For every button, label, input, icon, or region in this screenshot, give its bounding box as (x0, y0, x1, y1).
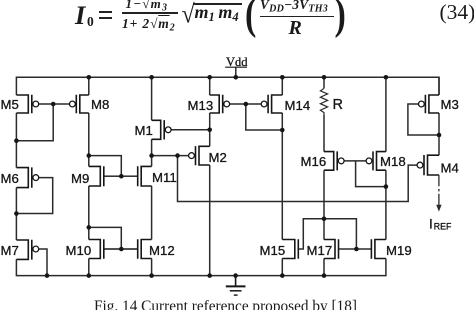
wire M5 diode gate return (16, 104, 69, 141)
transistor M4 (424, 154, 439, 175)
wire node B long horizontal (178, 156, 418, 202)
transistor M15 (282, 239, 298, 260)
current arrow IREF dashed (438, 175, 440, 205)
junction M18 source / Vdd rail (384, 75, 389, 80)
junction M9 source / M10 drain (87, 225, 92, 230)
junction M13-M14 gate node (244, 102, 249, 107)
junction M17-M19 gate node (354, 247, 359, 252)
transistor M7 (16, 239, 31, 260)
svg-text:M5: M5 (1, 97, 19, 112)
wire M10 gate branch (89, 227, 122, 249)
wire M13 column (209, 77, 211, 275)
wire M15 gate branch (298, 219, 356, 249)
svg-text:M6: M6 (1, 171, 19, 186)
transistor M12 (138, 239, 152, 260)
eq big right paren (335, 0, 346, 40)
wire M13 M14 gate (230, 104, 283, 130)
svg-text:M19: M19 (386, 243, 412, 258)
wire M8 drain column (88, 77, 90, 275)
svg-text:M13: M13 (188, 98, 214, 113)
svg-text:I: I (429, 217, 433, 232)
resistor R (320, 88, 327, 115)
caption Fig.14 (94, 298, 357, 310)
svg-text:M1: M1 (135, 123, 153, 138)
Vdd underline (225, 66, 247, 68)
transistor M17 (324, 239, 339, 260)
transistor M11 (138, 166, 152, 187)
junction M10 source / ground rail (87, 273, 92, 278)
transistor M3 (425, 94, 439, 114)
transistor M19 (371, 239, 386, 260)
wire M3 diode gate return (408, 104, 439, 135)
equation I0 formula (75, 0, 85, 31)
wire M14 column (281, 77, 283, 275)
transistor M16 (324, 151, 337, 171)
wire M7 gate to rail (39, 249, 47, 276)
wire M1 column (151, 77, 153, 275)
svg-text:M14: M14 (285, 98, 311, 113)
svg-text:M2: M2 (209, 150, 227, 165)
eq fraction 2 denominator (289, 17, 302, 40)
svg-text:M18: M18 (380, 154, 406, 169)
junction M5-M8 gate node (51, 102, 56, 107)
eq fraction 2 bar (260, 16, 335, 17)
eq fraction 1 denominator (122, 16, 175, 34)
wire M9 gate branch (89, 156, 122, 177)
junction M1 source / Vdd rail (149, 75, 154, 80)
junction R top / Vdd rail (322, 75, 327, 80)
junction M5 drain / gate return (14, 138, 19, 143)
svg-text:M10: M10 (66, 243, 92, 258)
transistor M1 (152, 120, 165, 141)
junction M1 drain / M11 drain (149, 153, 154, 158)
junction M8 drain / M9 drain (87, 153, 92, 158)
svg-text:M8: M8 (91, 97, 109, 112)
wire M3 column (438, 77, 440, 155)
wire M18 column (385, 77, 387, 239)
svg-text:M15: M15 (260, 243, 286, 258)
svg-text:M7: M7 (1, 243, 19, 258)
junction Vdd stub / rail (234, 75, 239, 80)
wire M16 M18 gate (344, 161, 386, 187)
svg-text:M11: M11 (152, 170, 177, 185)
junction node to M4 gate wire (175, 153, 180, 158)
junction M12 source / ground rail (149, 273, 154, 278)
transistor M10 (89, 239, 104, 260)
svg-text:M12: M12 (149, 243, 175, 258)
wire M6 diode gate return (16, 178, 52, 214)
eq sqrt m1m4 (182, 1, 195, 30)
eq big left paren (245, 0, 256, 40)
eq number (34) (440, 0, 474, 25)
junction ground rail / ground symbol (233, 273, 238, 278)
eq fraction 1 numerator (126, 0, 169, 13)
ground rail (16, 259, 386, 276)
junction R-M16 line / M15-M17 branch (322, 217, 327, 222)
wire M1 gate to M13 drain (171, 129, 210, 131)
transistor M6 (16, 167, 31, 189)
eq fraction 1 bar (122, 12, 178, 13)
svg-text:M9: M9 (71, 171, 89, 186)
junction M9-M11 gate node (119, 174, 124, 179)
Vdd rail (16, 77, 439, 95)
junction M18 drain / gate return (384, 184, 389, 189)
junction M14 drain node (280, 128, 285, 133)
junction M10-M12 gate node (119, 247, 124, 252)
transistor M18 (373, 151, 386, 171)
wire M5 column (15, 113, 17, 240)
transistor M14 (268, 94, 282, 114)
svg-text:M16: M16 (301, 154, 327, 169)
junction M13 drain / M1 gate / M2 source (207, 128, 212, 133)
wire node A to M2 gate (152, 155, 189, 157)
junction M13 source / Vdd rail (207, 75, 212, 80)
svg-text:M4: M4 (441, 161, 459, 176)
svg-text:M17: M17 (307, 243, 333, 258)
junction M7 gate / ground rail (45, 273, 50, 278)
transistor M2 (196, 146, 210, 166)
junction M2 drain / ground rail (207, 273, 212, 278)
wire Vdd stub (235, 68, 237, 78)
transistor M13 (210, 94, 223, 114)
junction M6 drain / gate return (14, 211, 19, 216)
junction M8 source / Vdd rail (87, 75, 92, 80)
junction M15 source / ground rail (280, 273, 285, 278)
eq fraction 2 numerator (260, 0, 328, 14)
wire M17 M19 gate (339, 248, 372, 250)
svg-text:R: R (333, 97, 343, 113)
svg-text:M3: M3 (441, 97, 459, 112)
transistor M5 (16, 94, 31, 114)
transistor M8 (76, 94, 89, 114)
junction M3 drain / gate return (437, 133, 442, 138)
junction M14 source / Vdd rail (280, 75, 285, 80)
arrowhead (436, 205, 441, 212)
junction M17 source / ground rail (322, 273, 327, 278)
wire R column M16 M17 (323, 77, 325, 275)
ground symbol (226, 276, 246, 296)
svg-text:REF: REF (434, 221, 452, 231)
transistor M9 (89, 166, 104, 187)
